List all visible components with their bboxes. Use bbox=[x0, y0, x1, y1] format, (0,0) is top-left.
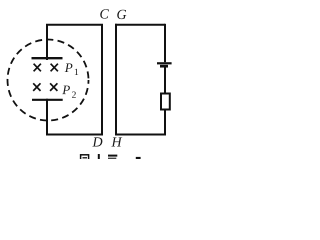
caption glyph: box fragment bbox=[136, 157, 141, 160]
wire battery to resistor bbox=[164, 68, 166, 95]
dashed field-region circle bbox=[8, 40, 89, 121]
battery E short plate bbox=[160, 65, 168, 68]
wire loop GH (right rectangle) bbox=[115, 24, 117, 136]
caption glyph: bar fragment bbox=[108, 156, 117, 160]
field cross row1 left bbox=[34, 64, 41, 72]
node D label bbox=[92, 137, 102, 146]
label P2 subscript 2 bbox=[72, 92, 76, 98]
node G label bbox=[117, 10, 126, 19]
caption glyph: top of 图 bbox=[81, 155, 89, 161]
wire right side upper segment bbox=[164, 24, 166, 62]
wire bottom edge right loop bbox=[115, 134, 166, 136]
wire resistor to bottom bbox=[164, 110, 166, 136]
label P1 letter bbox=[65, 63, 73, 72]
field cross row2 right bbox=[50, 83, 57, 91]
resistor R bbox=[161, 94, 170, 110]
field cross row1 right bbox=[51, 64, 58, 72]
capacitor bottom plate bbox=[32, 99, 63, 101]
wire top edge right loop bbox=[115, 24, 165, 26]
field cross row2 left bbox=[33, 83, 40, 91]
label P2 letter bbox=[62, 86, 70, 95]
label P1 subscript 1 bbox=[75, 69, 78, 75]
wire loop CD (left rectangle, left side broken by capacitor) bbox=[47, 25, 102, 135]
caption glyph: stroke fragment bbox=[98, 154, 100, 160]
battery E long plate bbox=[157, 62, 172, 64]
capacitor top plate bbox=[32, 57, 63, 59]
node C label bbox=[100, 9, 109, 18]
node H label bbox=[111, 137, 122, 146]
